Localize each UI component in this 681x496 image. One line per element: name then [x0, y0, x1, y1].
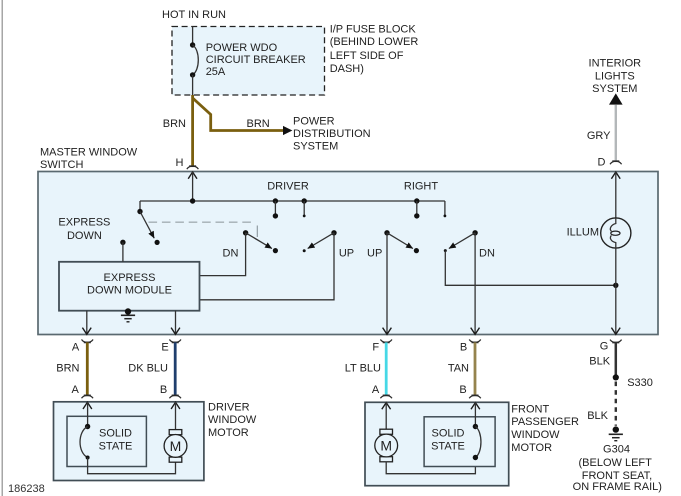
svg-text:BRN: BRN: [247, 118, 270, 130]
motor M passenger: [375, 429, 398, 462]
svg-text:I/P FUSE BLOCK: I/P FUSE BLOCK: [330, 24, 417, 36]
svg-text:HOT IN RUN: HOT IN RUN: [162, 9, 226, 21]
svg-text:BLK: BLK: [589, 356, 610, 368]
wire right UP pivot to F: [386, 233, 388, 334]
connector D: [610, 161, 622, 164]
svg-text:A: A: [72, 341, 80, 353]
wire A into solid state: [87, 402, 89, 427]
wire stub driver UP contact: [303, 201, 305, 216]
wire DK BLU E: [174, 342, 177, 395]
connector B motor right: [469, 395, 481, 398]
connector A top: [82, 340, 94, 343]
switch solid state passenger: [473, 424, 481, 460]
svg-text:BRN: BRN: [163, 118, 186, 130]
wire H to bus: [192, 172, 194, 202]
wire stub right UP contact: [416, 201, 418, 216]
node INTERIOR LIGHTS SYSTEM: [589, 58, 642, 96]
svg-text:BLK: BLK: [587, 410, 608, 422]
svg-text:LIGHTS: LIGHTS: [595, 70, 635, 82]
chevron D inside: [611, 172, 620, 179]
svg-text:BRN: BRN: [56, 363, 79, 375]
node driver DN contact dot: [273, 248, 278, 253]
wire TAN B: [474, 342, 477, 395]
lamp ILLUM: [601, 218, 631, 248]
wire module to A: [86, 311, 88, 335]
node right DN contact small: [444, 249, 447, 252]
svg-text:DASH): DASH): [330, 63, 364, 75]
node driver DN fixed contact: [273, 213, 278, 218]
chevron E: [171, 328, 180, 335]
switch right DN blade: [449, 233, 475, 249]
svg-text:G304: G304: [603, 444, 630, 456]
wire stub driver DN contact: [274, 201, 276, 216]
chevron A motor inside: [83, 402, 92, 409]
wire BRN from breaker to H: [191, 95, 194, 166]
svg-text:S330: S330: [627, 377, 653, 389]
node driver UP contact small: [303, 249, 306, 252]
express down module U2: [59, 262, 200, 311]
label DRIVER WINDOW MOTOR: [208, 401, 257, 439]
connector E top: [169, 340, 181, 343]
svg-text:EXPRESS: EXPRESS: [58, 217, 110, 229]
svg-text:FRONT: FRONT: [511, 403, 549, 415]
node right DN pivot: [472, 230, 477, 235]
svg-text:CIRCUIT BREAKER: CIRCUIT BREAKER: [206, 54, 306, 66]
node driver UP fixed contact small: [303, 215, 306, 218]
svg-text:DISTRIBUTION: DISTRIBUTION: [293, 128, 371, 140]
svg-text:INTERIOR: INTERIOR: [589, 58, 642, 70]
connector A motor: [82, 395, 94, 398]
svg-text:LEFT SIDE OF: LEFT SIDE OF: [330, 50, 404, 62]
chevron B motor right inside: [471, 403, 480, 410]
svg-text:MOTOR: MOTOR: [208, 427, 249, 439]
svg-text:DRIVER: DRIVER: [208, 401, 250, 413]
wire right DN pivot to B: [474, 233, 476, 334]
label G304 location: [573, 444, 662, 494]
switch driver UP blade: [308, 233, 334, 249]
svg-text:(BELOW LEFT: (BELOW LEFT: [579, 457, 653, 469]
svg-text:M: M: [380, 438, 392, 454]
svg-text:DOWN: DOWN: [67, 230, 102, 242]
switch right UP blade: [387, 233, 413, 249]
connector H: [187, 166, 199, 169]
chevron H: [188, 172, 197, 179]
svg-text:B: B: [459, 384, 466, 396]
svg-text:PASSENGER: PASSENGER: [511, 416, 579, 428]
chevron A motor right inside: [382, 403, 391, 410]
connector B top: [469, 340, 481, 343]
splice S330: [613, 374, 619, 380]
wire bus corner to express pivot: [139, 201, 141, 212]
solid state box driver: [67, 416, 146, 466]
switch solid state driver: [80, 424, 90, 460]
svg-text:WINDOW: WINDOW: [208, 414, 257, 426]
node right UP fixed contact: [414, 213, 419, 218]
svg-text:SYSTEM: SYSTEM: [592, 83, 637, 95]
wire solid state to motor bottom: [88, 458, 176, 474]
svg-text:A: A: [372, 384, 380, 396]
chevron B motor inside: [171, 402, 180, 409]
svg-text:M: M: [170, 438, 182, 454]
wire right DN contact to illum: [445, 251, 616, 286]
chevron F: [383, 328, 392, 335]
value label POWER WDO CIRCUIT BREAKER 25A: [206, 42, 306, 78]
svg-text:G: G: [600, 341, 609, 353]
connector B motor: [169, 395, 181, 398]
svg-text:F: F: [372, 341, 379, 353]
node driver DN pivot: [243, 230, 248, 235]
svg-text:MASTER WINDOW: MASTER WINDOW: [40, 146, 138, 158]
mechanical link tick: [256, 226, 258, 238]
page left border: [1, 0, 3, 496]
junction bus right UP: [414, 198, 419, 203]
svg-text:DRIVER: DRIVER: [267, 181, 309, 193]
svg-text:TAN: TAN: [448, 363, 469, 375]
svg-text:LT BLU: LT BLU: [345, 363, 381, 375]
svg-text:E: E: [161, 341, 168, 353]
node right UP pivot: [384, 230, 389, 235]
svg-text:SWITCH: SWITCH: [40, 159, 83, 171]
svg-text:B: B: [460, 341, 467, 353]
chevron G: [611, 328, 620, 335]
node right DN fixed contact small: [444, 215, 447, 218]
junction bus driver UP: [302, 198, 307, 203]
svg-text:D: D: [598, 156, 606, 168]
wire D to lamp: [615, 172, 617, 219]
wire bus: [140, 200, 445, 202]
label EXPRESS DOWN: [58, 217, 110, 242]
svg-text:25A: 25A: [206, 66, 226, 78]
node POWER DISTRIBUTION SYSTEM: [293, 116, 371, 153]
chevron B: [471, 328, 480, 335]
I/P fuse block dashed box: [172, 27, 325, 96]
junction H bus: [190, 198, 195, 203]
svg-text:FRONT SEAT,: FRONT SEAT,: [582, 470, 653, 482]
wire B into solid state right: [474, 402, 476, 426]
svg-text:MOTOR: MOTOR: [511, 442, 552, 454]
svg-text:H: H: [176, 157, 184, 169]
label SOLID STATE: [99, 428, 133, 453]
node driver UP pivot: [331, 230, 336, 235]
svg-text:186238: 186238: [8, 483, 45, 495]
node express down pivot: [137, 209, 142, 214]
svg-text:UP: UP: [367, 247, 382, 259]
wire BRN branch to power distribution: [193, 98, 284, 131]
svg-text:ILLUM: ILLUM: [567, 227, 599, 239]
wire BLK dashed to ground: [615, 382, 617, 426]
wire BLK G: [615, 343, 618, 376]
node express down contact: [155, 240, 160, 245]
wire BRN A: [86, 342, 89, 395]
arrow to interior lights system: [609, 93, 623, 104]
connector F top: [380, 340, 392, 343]
mechanical link dashed: [149, 221, 256, 223]
label SOLID STATE right: [431, 428, 465, 453]
driver window motor box M1: [54, 402, 204, 481]
wire bus corner right DN: [444, 201, 446, 216]
wire driver DN pivot to module: [200, 233, 246, 276]
motor M driver: [164, 430, 187, 463]
svg-text:POWER: POWER: [293, 116, 335, 128]
wire LT BLU F: [385, 342, 388, 395]
svg-text:B: B: [160, 384, 167, 396]
svg-text:GRY: GRY: [587, 130, 611, 142]
svg-text:DN: DN: [479, 247, 495, 259]
svg-text:DN: DN: [223, 247, 239, 259]
svg-text:SOLID: SOLID: [431, 428, 464, 440]
ground G304: [609, 426, 623, 440]
junction illum return: [613, 283, 618, 288]
switch express down blade: [140, 212, 154, 239]
wire stub to module: [120, 240, 125, 262]
label MASTER WINDOW SWITCH: [40, 146, 138, 171]
svg-text:ON FRAME RAIL): ON FRAME RAIL): [573, 481, 662, 493]
svg-text:DK BLU: DK BLU: [128, 363, 168, 375]
wire lamp to G: [615, 248, 617, 334]
circuit breaker POWER WDO 25A: [190, 27, 198, 96]
node right UP contact dot: [414, 248, 419, 253]
wire A into motor right: [385, 402, 387, 429]
label EXPRESS DOWN MODULE: [87, 272, 172, 297]
svg-text:STATE: STATE: [99, 440, 133, 452]
svg-text:WINDOW: WINDOW: [511, 429, 560, 441]
svg-text:DOWN MODULE: DOWN MODULE: [87, 285, 172, 297]
svg-text:SYSTEM: SYSTEM: [293, 141, 338, 153]
switch driver DN blade: [246, 233, 272, 249]
ground module: [121, 308, 135, 322]
svg-text:POWER WDO: POWER WDO: [206, 42, 278, 54]
svg-text:(BEHIND LOWER: (BEHIND LOWER: [330, 36, 419, 48]
connector A motor right: [380, 395, 392, 398]
wire B into motor: [175, 402, 177, 430]
chevron A: [82, 328, 91, 335]
svg-text:UP: UP: [339, 247, 354, 259]
label FRONT PASSENGER WINDOW MOTOR: [511, 403, 579, 454]
solid state box passenger: [424, 417, 495, 467]
junction bus driver DN: [273, 198, 278, 203]
label I/P FUSE BLOCK location: [330, 24, 419, 75]
wire GRY: [615, 105, 617, 162]
arrow to power distribution system: [283, 126, 292, 135]
svg-text:A: A: [72, 384, 80, 396]
wire module to E: [175, 311, 177, 335]
wire driver UP pivot to module: [200, 233, 335, 300]
front passenger window motor box M2: [365, 402, 509, 485]
svg-text:STATE: STATE: [431, 440, 465, 452]
svg-text:RIGHT: RIGHT: [404, 181, 439, 193]
wire motor bottom to solid state right: [386, 458, 475, 474]
svg-text:SOLID: SOLID: [99, 428, 132, 440]
master window switch box U1: [38, 172, 658, 335]
svg-text:EXPRESS: EXPRESS: [104, 272, 156, 284]
connector G top: [610, 340, 622, 343]
